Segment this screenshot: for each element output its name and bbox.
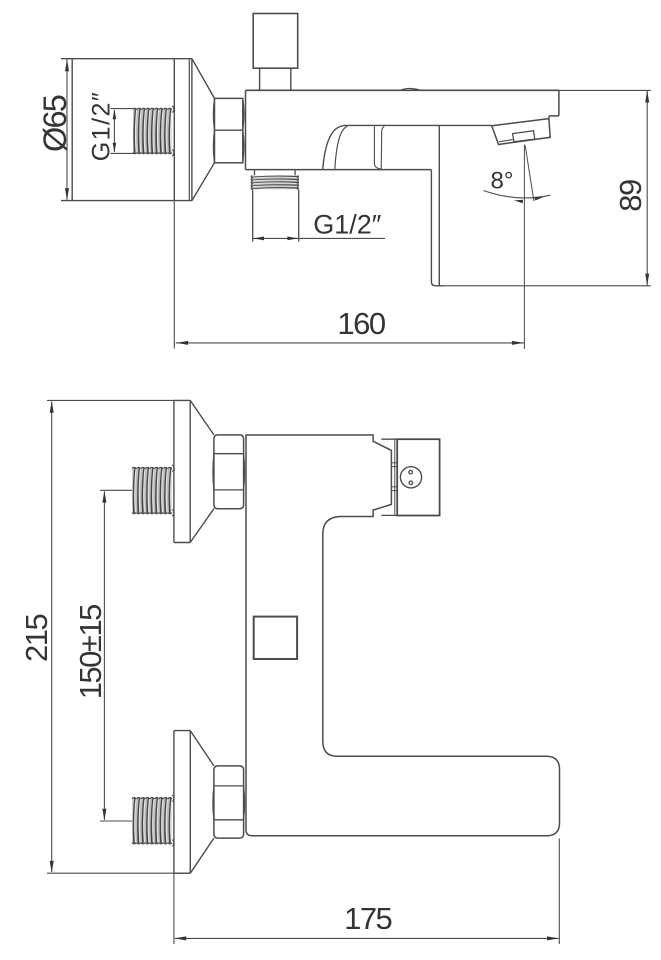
svg-text:89: 89 — [613, 180, 648, 212]
svg-text:175: 175 — [344, 901, 391, 936]
svg-text:G1/2″: G1/2″ — [313, 210, 382, 240]
svg-text:150±15: 150±15 — [73, 605, 108, 699]
svg-text:G1/2″: G1/2″ — [88, 91, 116, 162]
svg-text:215: 215 — [19, 615, 54, 662]
svg-text:Ø65: Ø65 — [37, 95, 73, 152]
svg-text:160: 160 — [337, 306, 385, 341]
svg-text:8°: 8° — [491, 167, 514, 194]
